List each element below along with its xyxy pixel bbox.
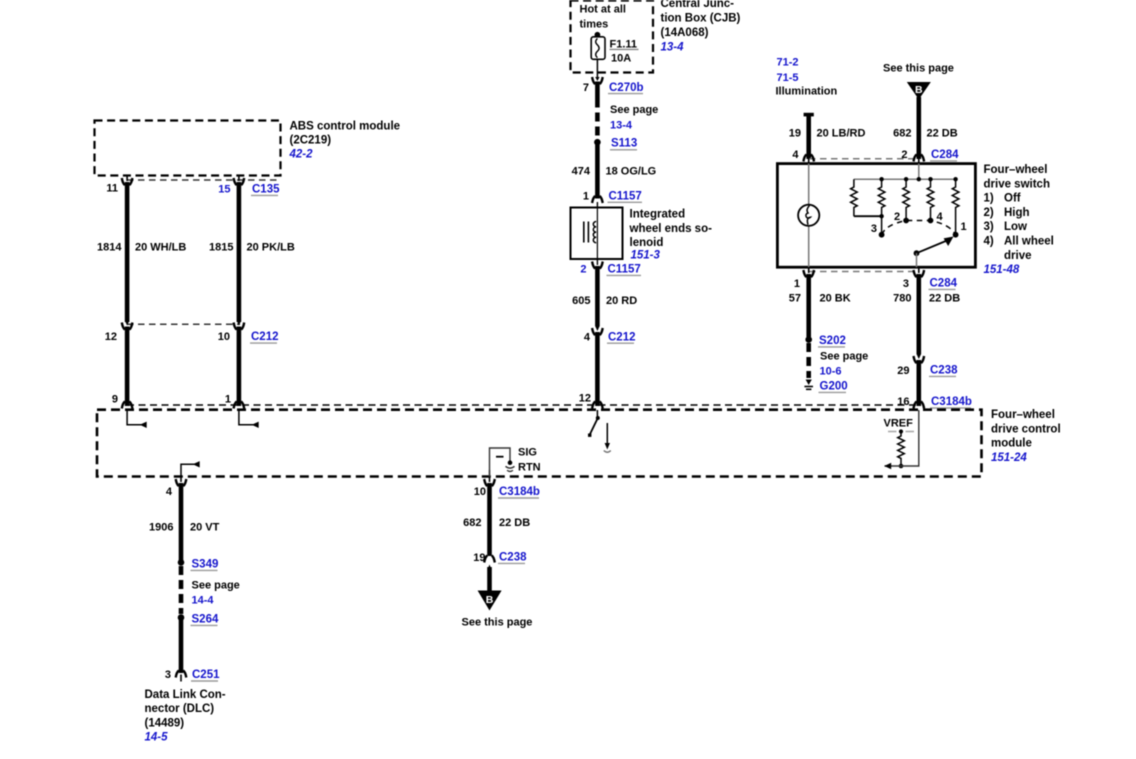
module internal pin 12 switch bbox=[588, 410, 600, 437]
connector C238 right (male tip + horns up) bbox=[914, 354, 925, 363]
svg-text:15: 15 bbox=[218, 184, 230, 196]
svg-text:C238: C238 bbox=[930, 365, 958, 377]
svg-text:20 RD: 20 RD bbox=[606, 295, 637, 307]
svg-text:1): 1) bbox=[984, 193, 994, 205]
svg-text:4: 4 bbox=[166, 486, 173, 498]
svg-text:20 LB/RD: 20 LB/RD bbox=[817, 128, 866, 140]
wire 19 20 LB/RD bbox=[806, 115, 811, 159]
svg-text:1906: 1906 bbox=[149, 522, 173, 534]
svg-text:20 PK/LB: 20 PK/LB bbox=[247, 242, 295, 254]
rotary arc (dashed) bbox=[882, 221, 956, 235]
svg-text:18 OG/LG: 18 OG/LG bbox=[606, 166, 657, 178]
wire to DLC bbox=[179, 618, 184, 673]
connector line C212 (dashed, left pair) bbox=[127, 323, 240, 325]
svg-text:22 DB: 22 DB bbox=[927, 128, 958, 140]
svg-text:drive control: drive control bbox=[991, 423, 1061, 435]
fuse value label F1.11 / 10A bbox=[610, 39, 639, 65]
illumination lamp bbox=[798, 205, 819, 226]
pin 11 stub + horns bbox=[122, 176, 133, 186]
connector C212 center (male tip + horns up) bbox=[592, 326, 603, 335]
svg-text:22 DB: 22 DB bbox=[929, 293, 960, 305]
svg-text:B: B bbox=[486, 594, 494, 606]
svg-text:Off: Off bbox=[1004, 193, 1021, 205]
wire 682 22 DB (bottom) bbox=[487, 483, 492, 556]
svg-text:C135: C135 bbox=[252, 184, 280, 196]
connector face line (thin dashed) bbox=[127, 404, 919, 406]
wire to module pin 16 bbox=[916, 360, 921, 406]
svg-text:drive switch: drive switch bbox=[984, 178, 1050, 190]
svg-text:4): 4) bbox=[984, 236, 994, 248]
svg-text:S202: S202 bbox=[819, 335, 846, 347]
wire 780 22 DB bbox=[916, 274, 921, 354]
module internal VREF resistor bbox=[884, 418, 915, 469]
connector at switch pin 4 (horns down + stub) bbox=[803, 155, 814, 164]
wire (hot feed, solid) bbox=[595, 82, 600, 99]
svg-text:682: 682 bbox=[463, 517, 481, 529]
solenoid box bbox=[571, 208, 623, 260]
svg-text:1815: 1815 bbox=[209, 242, 233, 254]
rotary contacts bbox=[879, 232, 885, 238]
resistor R3 bbox=[903, 181, 910, 221]
connector C212 pin 10 (male tip + horns up) bbox=[234, 321, 245, 330]
svg-text:See page: See page bbox=[820, 351, 868, 363]
svg-text:682: 682 bbox=[893, 128, 911, 140]
connector at module pin 1 (horns down) bbox=[234, 402, 245, 409]
svg-text:20 VT: 20 VT bbox=[190, 522, 220, 534]
svg-text:G200: G200 bbox=[820, 381, 848, 393]
svg-text:All wheel: All wheel bbox=[1004, 236, 1054, 248]
solenoid core (parallel bars) bbox=[583, 222, 585, 243]
svg-text:10: 10 bbox=[218, 331, 230, 343]
svg-text:module: module bbox=[991, 438, 1032, 450]
label Central Junction Box (CJB) (14A068) 13-4 bbox=[661, 0, 741, 54]
svg-text:See this page: See this page bbox=[883, 63, 954, 75]
svg-text:(14A068): (14A068) bbox=[661, 27, 709, 39]
connector at switch pin 1 (stub + horns up) bbox=[803, 267, 814, 277]
wire 1815 20 PK/LB bbox=[237, 182, 242, 322]
bus junction dots bbox=[879, 177, 957, 181]
connector at switch pin 3 (stub + horns up) bbox=[914, 267, 925, 277]
svg-text:Central Junc-: Central Junc- bbox=[661, 0, 735, 10]
internal wire pin 2 to resistor bus (gray) bbox=[918, 164, 920, 180]
svg-text:11: 11 bbox=[106, 183, 118, 195]
svg-text:ABS control module: ABS control module bbox=[290, 121, 401, 133]
svg-text:9: 9 bbox=[112, 394, 118, 406]
svg-text:(14489): (14489) bbox=[145, 717, 185, 729]
svg-text:Low: Low bbox=[1004, 221, 1027, 233]
svg-text:tion Box (CJB): tion Box (CJB) bbox=[661, 13, 741, 25]
svg-text:605: 605 bbox=[572, 295, 590, 307]
svg-text:19: 19 bbox=[789, 128, 801, 140]
wiper arm with arrowhead bbox=[914, 237, 954, 257]
svg-text:nector (DLC): nector (DLC) bbox=[145, 703, 215, 715]
svg-text:22 DB: 22 DB bbox=[499, 517, 530, 529]
splice S264 bbox=[178, 614, 185, 621]
wire pin12 to module pin 9 bbox=[125, 327, 130, 407]
wiper to pin 3 (gray) bbox=[916, 253, 918, 267]
svg-text:(2C219): (2C219) bbox=[290, 135, 332, 147]
svg-text:2: 2 bbox=[894, 211, 900, 223]
svg-text:10-6: 10-6 bbox=[820, 366, 842, 378]
svg-text:C212: C212 bbox=[251, 331, 279, 343]
svg-text:10A: 10A bbox=[611, 53, 631, 65]
svg-text:13-4: 13-4 bbox=[610, 120, 633, 132]
svg-text:See page: See page bbox=[192, 580, 240, 592]
connector C251 (horns down + stub) bbox=[176, 671, 187, 682]
module internal pin 10 stub bbox=[489, 470, 491, 477]
label Integrated wheel ends solenoid 151-3 bbox=[629, 209, 713, 262]
svg-text:151-24: 151-24 bbox=[991, 452, 1027, 464]
svg-text:12: 12 bbox=[579, 393, 591, 405]
module internal SIG RTN ground bbox=[490, 448, 515, 477]
resistor R5 bbox=[952, 181, 959, 235]
svg-text:2: 2 bbox=[580, 264, 586, 276]
module internal arrow to ground (pin 12 state) bbox=[604, 423, 611, 452]
svg-text:S349: S349 bbox=[192, 559, 219, 571]
junction dot + leg to contact 3 bbox=[879, 214, 883, 218]
svg-text:SIG: SIG bbox=[518, 447, 537, 459]
off-page connector B (triangle, top) bbox=[907, 82, 931, 100]
connector C238 (horns down) bbox=[484, 556, 495, 563]
label ABS control module (2C219) 42-2 bbox=[289, 121, 401, 161]
svg-text:71-2: 71-2 bbox=[777, 57, 799, 69]
ABS control module dashed box bbox=[95, 121, 281, 176]
solenoid internal wire bbox=[596, 208, 598, 260]
svg-text:20 WH/LB: 20 WH/LB bbox=[135, 242, 186, 254]
svg-text:Integrated: Integrated bbox=[630, 209, 686, 221]
resistor R2 bbox=[878, 181, 885, 216]
svg-text:S113: S113 bbox=[611, 138, 637, 150]
resistor bus (gray) bbox=[854, 178, 956, 180]
wire down to module pin 12 bbox=[595, 332, 600, 406]
node: fuse feed dot bbox=[595, 32, 601, 38]
wire terminal bar (circuit 19) bbox=[804, 113, 814, 117]
wire 1814 20 WH/LB bbox=[125, 182, 130, 322]
wire 682 22 DB (from B) bbox=[916, 97, 921, 159]
svg-text:S264: S264 bbox=[192, 614, 219, 626]
svg-text:3: 3 bbox=[871, 223, 877, 235]
svg-text:16: 16 bbox=[897, 396, 909, 408]
wire 1906 20 VT bbox=[179, 483, 184, 560]
svg-text:times: times bbox=[580, 19, 609, 31]
ground G200 bbox=[804, 380, 813, 390]
svg-text:RTN: RTN bbox=[518, 462, 541, 474]
connector line C284 top (dashed gray) bbox=[809, 158, 919, 160]
wire through fuse bbox=[596, 35, 598, 78]
svg-text:C212: C212 bbox=[608, 331, 636, 343]
svg-text:C1157: C1157 bbox=[609, 191, 642, 203]
connector C270b (horns up) bbox=[592, 77, 603, 84]
wire 474 18 OG/LG bbox=[595, 143, 600, 199]
svg-text:C270b: C270b bbox=[609, 82, 644, 94]
label Data Link Connector (DLC) (14489) 14-5 bbox=[145, 689, 226, 744]
svg-text:13-4: 13-4 bbox=[661, 42, 685, 54]
svg-text:lenoid: lenoid bbox=[630, 237, 664, 249]
svg-text:57: 57 bbox=[789, 293, 801, 305]
svg-text:C284: C284 bbox=[931, 149, 959, 161]
svg-text:drive: drive bbox=[1004, 250, 1032, 262]
svg-text:Data Link Con-: Data Link Con- bbox=[145, 689, 226, 701]
svg-text:12: 12 bbox=[105, 331, 117, 343]
svg-text:780: 780 bbox=[893, 293, 911, 305]
svg-text:See this page: See this page bbox=[462, 617, 533, 629]
svg-text:4: 4 bbox=[937, 211, 944, 223]
svg-text:20 BK: 20 BK bbox=[820, 293, 851, 305]
connector at module pin 4 (horns up under module) bbox=[176, 477, 187, 487]
connector C1157 pin 1 (horns down into solenoid box) bbox=[592, 196, 603, 208]
svg-text:3): 3) bbox=[984, 221, 994, 233]
label 71-2 / 71-5 / Illumination bbox=[776, 57, 838, 98]
male arrow + wire to B bbox=[487, 565, 491, 593]
svg-text:Four–wheel: Four–wheel bbox=[991, 409, 1055, 421]
connector at module pin 10 (horns up under module) bbox=[484, 477, 495, 487]
link R1 bottom to contact-3 leg bbox=[854, 215, 882, 217]
svg-text:C3184b: C3184b bbox=[499, 486, 540, 498]
pin 15 stub + horns bbox=[234, 176, 245, 186]
svg-text:1: 1 bbox=[583, 191, 589, 203]
svg-text:1: 1 bbox=[961, 221, 967, 233]
switch box bbox=[777, 164, 975, 268]
connector at module pin 9 (horns down) bbox=[122, 402, 133, 409]
svg-text:C238: C238 bbox=[499, 552, 527, 564]
svg-text:C251: C251 bbox=[192, 669, 220, 681]
label Hot at all times bbox=[580, 4, 626, 31]
svg-text:C1157: C1157 bbox=[608, 264, 641, 276]
svg-text:19: 19 bbox=[473, 552, 485, 564]
svg-text:4: 4 bbox=[792, 149, 799, 161]
connector at module pin 12 (horns down) bbox=[592, 402, 603, 409]
module internal pin 1 lead bbox=[239, 410, 259, 428]
svg-text:71-5: 71-5 bbox=[777, 72, 799, 84]
svg-text:14-5: 14-5 bbox=[145, 732, 169, 744]
module internal pin 16 lead bbox=[884, 410, 919, 469]
svg-text:1: 1 bbox=[794, 278, 800, 290]
resistor R (position 3 shunt) bbox=[851, 179, 858, 216]
wire 57 20 BK bbox=[806, 274, 811, 337]
connector line C135 (dashed) bbox=[127, 179, 278, 181]
off-page connector B (triangle, bottom) bbox=[478, 591, 502, 611]
solenoid coil bbox=[593, 222, 596, 243]
module internal pin 9 lead bbox=[127, 410, 147, 428]
connector line C284 bottom (dashed gray) bbox=[809, 271, 919, 273]
svg-text:29: 29 bbox=[897, 365, 909, 377]
fuse F1.11 10A bbox=[591, 37, 605, 60]
svg-text:14-4: 14-4 bbox=[192, 595, 215, 607]
svg-text:42-2: 42-2 bbox=[289, 149, 314, 161]
wire 605 20 RD bbox=[595, 266, 600, 326]
wire dashed (see page 14-4) bbox=[179, 566, 184, 614]
svg-text:2: 2 bbox=[901, 149, 907, 161]
wire dashed to ground bbox=[806, 343, 811, 378]
Central Junction Box (CJB) dashed box bbox=[571, 1, 654, 73]
svg-text:151-3: 151-3 bbox=[631, 249, 661, 261]
splice S349 bbox=[178, 559, 185, 566]
svg-text:3: 3 bbox=[903, 278, 909, 290]
label Four-wheel drive switch + positions bbox=[984, 164, 1054, 276]
svg-text:1814: 1814 bbox=[97, 242, 122, 254]
svg-text:Illumination: Illumination bbox=[776, 86, 838, 98]
svg-text:10: 10 bbox=[474, 486, 486, 498]
connector at module pin 16 (horns down) bbox=[914, 402, 925, 409]
module internal pin 4 lead bbox=[181, 461, 200, 476]
svg-text:4: 4 bbox=[584, 331, 591, 343]
svg-text:474: 474 bbox=[572, 166, 591, 178]
internal lamp feed wire (gray) bbox=[808, 164, 810, 268]
svg-text:wheel ends so-: wheel ends so- bbox=[629, 223, 713, 235]
label Four-wheel drive control module 151-24 bbox=[991, 409, 1061, 464]
svg-text:151-48: 151-48 bbox=[984, 264, 1020, 276]
resistor R4 bbox=[927, 181, 934, 221]
connector C1157 pin 2 (horns up under box) bbox=[592, 259, 603, 269]
svg-text:1: 1 bbox=[225, 394, 231, 406]
wire dashed (see page 13-4 continuation) bbox=[595, 99, 600, 140]
connector at switch pin 2 (horns down + stub) bbox=[914, 155, 925, 164]
svg-text:7: 7 bbox=[583, 82, 589, 94]
svg-text:C284: C284 bbox=[930, 278, 958, 290]
svg-text:High: High bbox=[1004, 207, 1030, 219]
connector C212 pin 12 (male tip + horns up) bbox=[122, 321, 133, 330]
splice S113 bbox=[594, 139, 601, 146]
splice S202 bbox=[805, 336, 812, 343]
svg-text:See page: See page bbox=[610, 104, 658, 116]
svg-text:Four–wheel: Four–wheel bbox=[984, 164, 1048, 176]
wire pin10 to module pin 1 bbox=[237, 327, 242, 407]
svg-text:2): 2) bbox=[984, 207, 994, 219]
svg-text:C3184b: C3184b bbox=[931, 396, 972, 408]
svg-text:Hot at all: Hot at all bbox=[580, 4, 626, 16]
module dashed box bbox=[97, 410, 982, 477]
svg-text:VREF: VREF bbox=[884, 418, 914, 430]
svg-text:B: B bbox=[915, 84, 923, 96]
svg-text:3: 3 bbox=[165, 669, 171, 681]
